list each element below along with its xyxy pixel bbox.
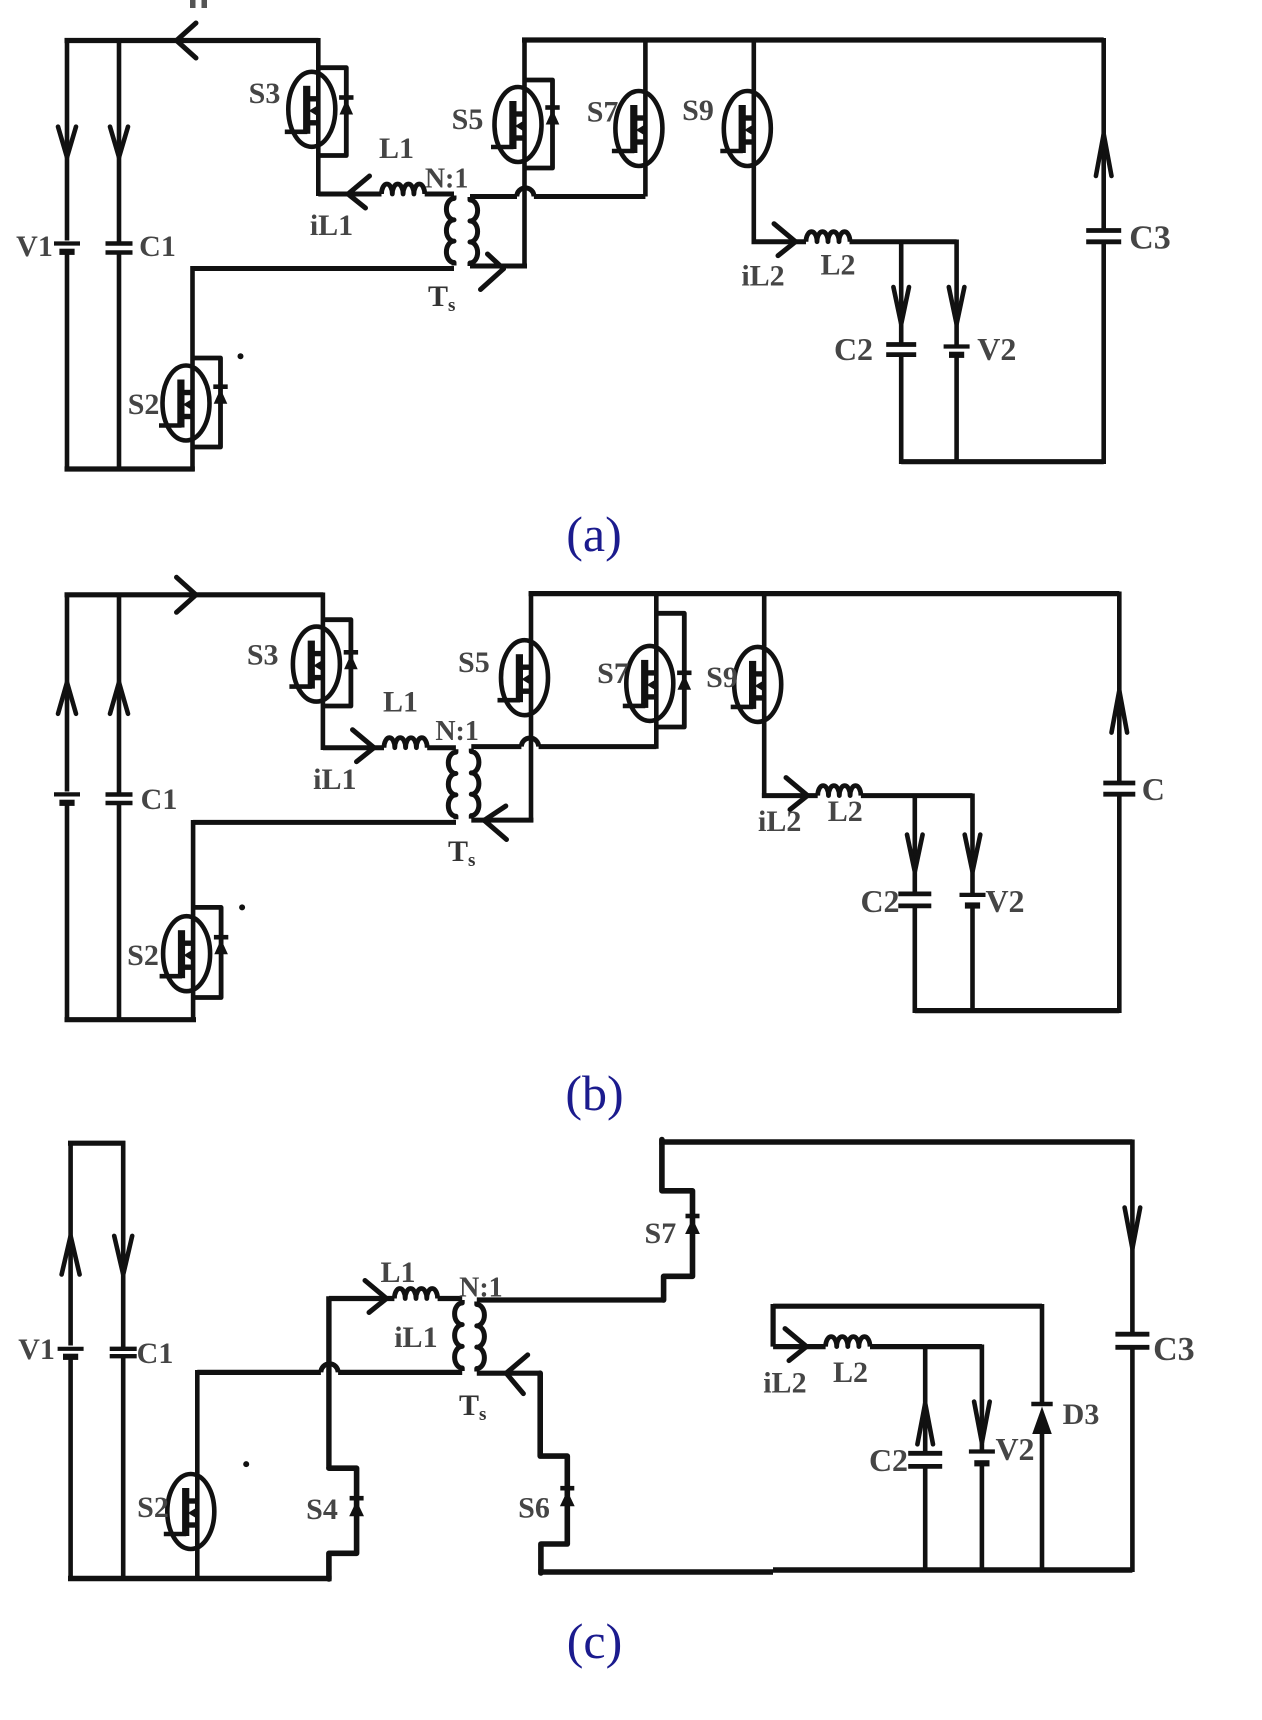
wire hump wire to S7 source (b) (654, 720, 659, 749)
wire D3 branch lower (c) (1040, 1432, 1045, 1572)
svg-text:iL2: iL2 (763, 1367, 806, 1400)
wire S9 drain (a) (751, 38, 756, 92)
transistor S3 (a) (285, 72, 336, 147)
wire bottom rail right (a) (901, 459, 1103, 464)
svg-text:V1: V1 (16, 230, 53, 263)
wire to L2 (c) (773, 1344, 826, 1349)
svg-text:C: C (1142, 771, 1165, 807)
voltage source V2 (c) (969, 1449, 995, 1453)
current arrow iL1 pointing right (c) (365, 1281, 387, 1299)
switch S6 jog with diode (c) (540, 1373, 567, 1573)
transistor S2 (b) (160, 916, 211, 991)
wire C2 branch upper (a) (899, 242, 904, 343)
wire C2 branch lower (a) (899, 355, 904, 464)
wire S5 source through hump (b) (529, 715, 534, 822)
svg-text:V1: V1 (18, 1333, 55, 1366)
svg-text:C3: C3 (1129, 220, 1171, 257)
voltage source V2 (b) (960, 893, 986, 897)
transistor S7 (a) (612, 91, 663, 166)
svg-text:iL1: iL1 (313, 763, 356, 796)
polarity dot (b) (239, 904, 245, 910)
svg-text:C2: C2 (860, 883, 899, 919)
wire L2 to V2 (b) (861, 793, 973, 798)
wire transformer secondary bottom (a) (470, 264, 527, 269)
wire S2 drain (b) (191, 820, 196, 916)
current arrow down C1 branch (c) (114, 1236, 132, 1275)
svg-text:S7: S7 (597, 657, 629, 690)
capacitor C2 (a) (886, 342, 916, 347)
diode of S4 (c) (349, 1498, 364, 1516)
capacitor C1 (c) (110, 1347, 137, 1351)
svg-text:iL2: iL2 (758, 805, 801, 838)
voltage source V1 (c) (58, 1347, 84, 1351)
current arrow Ts pointing right (a) (481, 254, 504, 290)
wire C3 branch upper (b) (1117, 592, 1122, 782)
transformer secondary winding Ts (b) (471, 749, 479, 819)
current arrow down V2 (b) (965, 835, 981, 872)
transistor S9 (b) (731, 647, 782, 722)
wire S5 source through hump (a) (522, 162, 527, 267)
wire bottom rail right (c) (538, 1570, 1132, 1572)
wire top rail right (a) (522, 37, 1104, 42)
wire top rail (c) (659, 1139, 1132, 1144)
polarity dot (a) (238, 353, 244, 359)
current arrow down V2 (a) (949, 287, 965, 324)
wire S3 drain (b) (321, 593, 326, 627)
transformer primary winding Ts (b) (448, 749, 456, 819)
wire bottom rail left (a) (65, 466, 195, 471)
wire S3 to L1 (a) (318, 192, 381, 197)
inductor L2 (c) (826, 1337, 870, 1347)
wire S9 to L2 (a) (752, 239, 807, 244)
svg-text:V2: V2 (995, 1431, 1034, 1467)
transformer primary winding Ts (c) (455, 1300, 463, 1371)
body diode of S2 (b) (193, 907, 228, 997)
svg-text:(b): (b) (565, 1065, 623, 1121)
transformer primary winding Ts (a) (446, 196, 454, 266)
figure (a) partial label at top edge (190, 0, 207, 8)
current arrow down C3 (c) (1125, 1208, 1141, 1249)
wire top rail right (b) (529, 591, 1120, 596)
wire V2 branch lower (c) (980, 1463, 985, 1572)
wire V2 branch upper (b) (970, 794, 975, 894)
wire S3 source (b) (321, 702, 326, 750)
wire V1 branch vertical (a) (65, 38, 70, 472)
svg-text:L1: L1 (380, 1256, 415, 1289)
wire V1 branch vertical (b) (65, 593, 70, 1023)
wire V2 branch lower (b) (970, 906, 975, 1014)
wire S2 source (c) (195, 1549, 200, 1581)
voltage source V1 (b) (54, 792, 80, 796)
body diode of S5 (a) (525, 80, 560, 168)
current arrow left on top rail (a) (177, 23, 197, 58)
transistor S2 (a) (159, 366, 210, 441)
transformer secondary winding Ts (c) (477, 1302, 485, 1372)
voltage source V1 (a) (54, 241, 80, 245)
transistor S5 (a) (491, 87, 542, 162)
diode of S6 (c) (560, 1488, 575, 1506)
inductor L1 (a) (382, 184, 425, 194)
capacitor C3 (b) (1103, 781, 1135, 786)
svg-text:S5: S5 (452, 103, 484, 136)
wire inner loop left leg (c) (770, 1304, 775, 1347)
wire C2 branch upper (c) (923, 1347, 928, 1452)
svg-text:S7: S7 (645, 1217, 677, 1250)
inductor L1 (b) (384, 738, 427, 748)
wire transformer secondary top (a) (470, 194, 645, 199)
body diode of S2 (a) (193, 358, 228, 447)
svg-text:S9: S9 (682, 94, 714, 127)
wire S5 drain (b) (529, 592, 534, 641)
capacitor C2 (c) (908, 1451, 942, 1456)
svg-text:Ts: Ts (448, 835, 475, 871)
current arrow down C2 (b) (907, 835, 923, 872)
svg-text:V2: V2 (977, 331, 1016, 367)
svg-text:L2: L2 (833, 1356, 868, 1389)
diode D3 (c) (1031, 1404, 1052, 1434)
svg-text:L2: L2 (828, 795, 863, 828)
current arrow down V2 (c) (974, 1402, 990, 1443)
wire transformer secondary bottom (c) (477, 1371, 540, 1376)
wire S2 to transformer (b) (193, 820, 456, 825)
wire S2 source (a) (190, 441, 195, 472)
svg-text:C2: C2 (869, 1442, 908, 1478)
current arrow Ts pointing left (c) (506, 1355, 528, 1394)
wire to L1 (c) (329, 1296, 395, 1301)
wire C3 branch lower (b) (1117, 794, 1122, 1013)
svg-text:S3: S3 (247, 639, 279, 672)
transistor S9 (a) (720, 91, 771, 166)
wire S2 to transformer with hump (c) (197, 1370, 462, 1375)
svg-text:S4: S4 (306, 1493, 338, 1526)
svg-text:S2: S2 (137, 1491, 169, 1524)
inductor L2 (b) (818, 786, 861, 796)
wire transformer secondary bottom (b) (471, 818, 533, 823)
current arrow up C3 (b) (1112, 691, 1128, 733)
wire S3 to L1 (b) (323, 745, 384, 750)
wire L2 to V2 (c) (870, 1344, 982, 1349)
wire C3 branch lower (c) (1130, 1347, 1135, 1572)
svg-text:L2: L2 (820, 249, 855, 282)
wire C1 branch vertical (b) (117, 593, 122, 1023)
current arrow up C3 (a) (1096, 134, 1112, 176)
wire C3 branch upper (c) (1130, 1140, 1135, 1333)
transistor S7 (b) (623, 646, 674, 721)
wire hump to S7 (a) (643, 166, 648, 197)
svg-text:(a): (a) (566, 506, 622, 562)
wire inner loop top (c) (773, 1304, 1042, 1309)
diode of S7 (c) (685, 1216, 700, 1234)
svg-text:iL1: iL1 (394, 1321, 437, 1354)
wire top rail V1-C1 (c) (68, 1141, 125, 1146)
body diode of S3 (b) (323, 620, 358, 706)
current arrow iL1 pointing left (a) (348, 176, 370, 194)
wire C3 branch lower (a) (1101, 242, 1106, 464)
switch S7 jog with diode (c) (662, 1140, 693, 1301)
inductor L2 (a) (806, 232, 850, 242)
current arrow up V1 branch (c) (62, 1236, 80, 1275)
wire bottom rail left (b) (65, 1017, 197, 1022)
wire S9 to L2 (b) (762, 793, 818, 798)
current arrow right on top rail (b) (177, 577, 197, 612)
wire bottom rail right (b) (915, 1008, 1120, 1013)
svg-text:S7: S7 (587, 96, 619, 129)
wire bottom rail left (c) (68, 1576, 332, 1581)
wire transformer secondary top (c) (477, 1297, 664, 1302)
wire crossover hump over S4 leg (c) (321, 1364, 338, 1373)
svg-text:D3: D3 (1063, 1398, 1100, 1431)
wire C1 branch vertical (c) (121, 1141, 126, 1581)
current arrow up C2 (c) (917, 1403, 933, 1444)
current arrow down C2 (a) (893, 287, 909, 324)
svg-text:S2: S2 (127, 939, 159, 972)
wire top rail left (b) (65, 592, 324, 597)
svg-text:L1: L1 (379, 132, 414, 165)
svg-text:N:1: N:1 (425, 164, 469, 195)
switch S4 jog with diode (c) (329, 1468, 357, 1579)
svg-text:V2: V2 (985, 883, 1024, 919)
transistor S3 (b) (289, 627, 340, 702)
svg-text:Ts: Ts (428, 280, 455, 316)
svg-text:L1: L1 (383, 686, 418, 719)
svg-text:S3: S3 (249, 77, 281, 110)
wire S7 drain (b) (654, 592, 659, 647)
capacitor C1 (a) (106, 241, 133, 245)
svg-text:S5: S5 (458, 646, 490, 679)
current arrow down V1 branch (a) (58, 127, 76, 158)
svg-text:iL2: iL2 (741, 260, 784, 293)
svg-text:S2: S2 (128, 388, 160, 421)
wire S5 drain (a) (522, 38, 527, 88)
inductor L1 (c) (394, 1289, 437, 1299)
wire transformer secondary top (b) (471, 744, 656, 749)
current arrow iL2 pointing right (b) (786, 778, 808, 796)
current arrow iL1 pointing right (b) (353, 730, 375, 748)
wire C3 branch upper (a) (1101, 38, 1106, 229)
capacitor C2 (b) (898, 892, 931, 897)
svg-text:(c): (c) (567, 1613, 623, 1669)
wire C2 branch upper (b) (912, 796, 917, 893)
wire S3 source (a) (316, 147, 321, 196)
wire V2 branch upper (c) (980, 1345, 985, 1450)
wire L2 to V2 (a) (850, 239, 957, 244)
diode D3 branch upper (c) (1040, 1304, 1045, 1402)
wire V1 branch vertical (c) (68, 1141, 73, 1581)
current arrow iL2 pointing right (c) (785, 1329, 807, 1347)
voltage source V2 (a) (944, 344, 970, 348)
body diode of S3 (a) (318, 68, 353, 156)
wire V2 branch upper (a) (954, 240, 959, 346)
svg-text:C1: C1 (139, 230, 176, 263)
current arrow down C1 branch (a) (110, 127, 128, 158)
wire S2 drain (a) (190, 266, 195, 366)
wire S3 drain (a) (316, 38, 321, 72)
wire L1 to transformer (b) (427, 745, 456, 750)
current arrow up C1 branch (b) (110, 682, 128, 713)
svg-text:N:1: N:1 (435, 716, 479, 747)
wire L1 to transformer (a) (425, 192, 454, 197)
current arrow Ts pointing left (b) (484, 806, 506, 840)
capacitor C1 (b) (106, 792, 133, 796)
capacitor C3 (a) (1086, 228, 1121, 233)
svg-text:Ts: Ts (459, 1389, 486, 1425)
svg-text:C1: C1 (137, 1337, 174, 1370)
wire C1 branch vertical (a) (117, 38, 122, 472)
wire top rail left (a) (65, 38, 319, 43)
transformer secondary winding Ts (a) (470, 197, 478, 266)
wire S9 source (a) (751, 166, 756, 245)
wire S9 source (b) (762, 722, 767, 798)
svg-text:C2: C2 (834, 331, 873, 367)
wire S2 drain (c) (195, 1370, 200, 1474)
wire L1 to transformer (c) (438, 1296, 463, 1301)
svg-text:C3: C3 (1153, 1331, 1195, 1368)
wire L1 left leg through hump (c) (326, 1296, 331, 1468)
capacitor C3 (c) (1115, 1332, 1149, 1337)
wire C2 branch lower (b) (912, 906, 917, 1013)
wire crossover hump over S5 leg (b) (521, 738, 538, 747)
svg-text:S9: S9 (706, 661, 738, 694)
wire S2 to transformer (a) (193, 266, 455, 271)
transistor S2 (c) (164, 1474, 215, 1549)
current arrow up V1 branch (b) (58, 682, 76, 713)
svg-text:C1: C1 (141, 783, 178, 816)
svg-text:iL1: iL1 (310, 209, 353, 242)
wire V2 branch lower (a) (954, 355, 959, 464)
wire crossover hump over S5 leg (a) (517, 188, 534, 197)
current arrow iL2 pointing right (a) (774, 224, 796, 242)
svg-text:S6: S6 (518, 1492, 550, 1525)
transistor S5 (b) (498, 640, 549, 715)
wire S9 drain (b) (762, 592, 767, 648)
wire S7 drain (a) (643, 38, 648, 92)
body diode of S7 (b) (656, 613, 691, 727)
polarity dot (c) (243, 1461, 249, 1467)
wire C2 branch lower (c) (923, 1466, 928, 1572)
wire S2 source (b) (191, 991, 196, 1022)
